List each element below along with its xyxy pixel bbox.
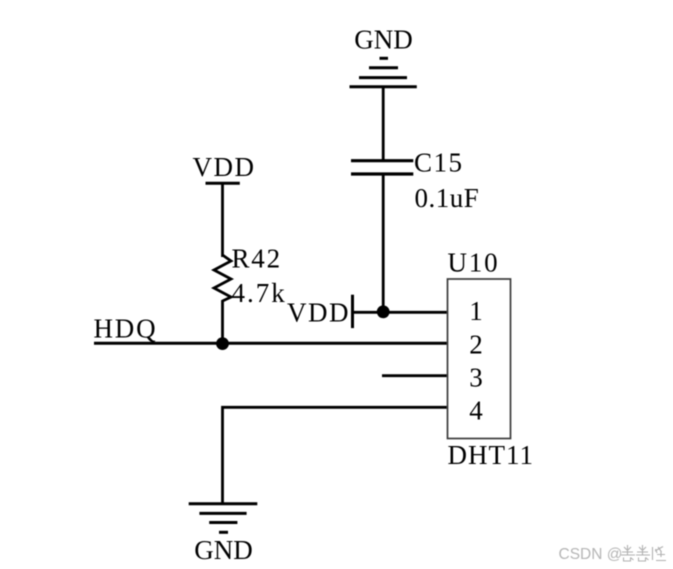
resistor R42 [214, 255, 231, 301]
svg-text:R42: R42 [232, 244, 282, 274]
watermark CJK glyphs [621, 545, 666, 561]
svg-text:U10: U10 [448, 248, 500, 278]
svg-text:0.1uF: 0.1uF [415, 183, 480, 213]
junction on HDQ net [216, 337, 229, 350]
svg-text:GND: GND [194, 535, 253, 565]
svg-text:4.7k: 4.7k [232, 278, 287, 308]
ground symbol (bottom) [189, 504, 258, 565]
svg-text:DHT11: DHT11 [448, 440, 535, 470]
capacitor C15 [351, 161, 413, 174]
svg-text:2: 2 [469, 330, 483, 360]
power symbol GND (top) [350, 25, 417, 87]
svg-text:VDD: VDD [287, 298, 350, 328]
svg-text:1: 1 [469, 296, 483, 326]
wire HDQ net to pin 2 [94, 342, 448, 345]
IC U10 body [448, 279, 511, 439]
power symbol VDD (top left) [193, 152, 256, 183]
svg-text:3: 3 [469, 363, 483, 393]
wire C15 bottom plate to pin 1 net [382, 174, 385, 314]
wire VDD to resistor R42 [221, 183, 224, 257]
junction at pin 1 net [377, 305, 390, 318]
svg-text:VDD: VDD [193, 152, 256, 182]
svg-text:C15: C15 [414, 148, 464, 178]
power symbol VDD (right, at pin 1) [287, 295, 353, 328]
wire R42 to HDQ net [221, 300, 224, 343]
wire stub pin 3 [382, 374, 448, 377]
wire pin 4 to ground [223, 407, 448, 503]
wire GND to C15 top plate [382, 87, 385, 160]
watermark CSDN [559, 546, 623, 563]
wire VDD bar to pin 1 [353, 311, 448, 314]
svg-text:HDQ: HDQ [94, 314, 158, 344]
svg-text:4: 4 [469, 396, 483, 426]
svg-text:GND: GND [354, 25, 413, 55]
svg-text:CSDN @: CSDN @ [559, 546, 623, 563]
